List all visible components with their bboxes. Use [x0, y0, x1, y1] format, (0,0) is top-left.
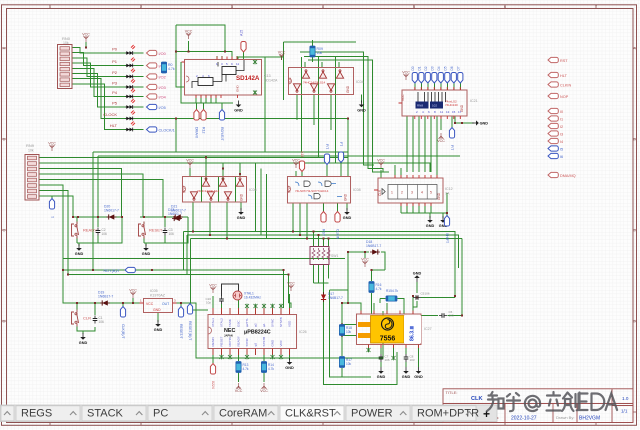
port RST(B) below NEC [210, 364, 215, 389]
power VCC left of flags [402, 71, 410, 80]
svg-text:GND: GND [344, 193, 348, 201]
flag F/T above IC07 [324, 144, 329, 165]
svg-text:F/T: F/T [450, 145, 454, 151]
svg-text:CLKIN: CLKIN [560, 83, 571, 87]
power VCC inverted below R13 [235, 383, 243, 393]
svg-text:103: 103 [449, 314, 454, 318]
svg-text:RESET: RESET [220, 336, 224, 346]
glyph E [579, 394, 588, 411]
wire counter bottom row [401, 193, 447, 218]
svg-text:1.0: 1.0 [622, 396, 629, 401]
svg-text:106: 106 [99, 320, 105, 324]
wire 7556 D18 row [348, 252, 385, 303]
svg-text:D6: D6 [450, 66, 454, 70]
svg-text:1/1: 1/1 [621, 409, 628, 414]
svg-text:1N6017-7: 1N6017-7 [104, 209, 119, 213]
svg-text:74HC14/74LS14: 74HC14/74LS14 [197, 189, 220, 193]
diode D17 vertical [321, 292, 343, 302]
switch CLR [72, 310, 105, 327]
svg-text:2: 2 [401, 191, 403, 195]
svg-text:106: 106 [169, 232, 175, 236]
resistor R18 [339, 325, 352, 336]
svg-text:RESIN: RESIN [211, 337, 215, 346]
title block [443, 389, 633, 423]
svg-text:RDY(B)/T: RDY(B)/T [104, 269, 121, 273]
svg-text:φ2: φ2 [254, 343, 258, 347]
svg-text:GND: GND [153, 308, 161, 312]
svg-text:8224: 8224 [211, 381, 215, 389]
switch RESET [139, 222, 175, 239]
hex inverter IC04 [288, 68, 364, 95]
svg-text:A: A [633, 46, 636, 51]
diode row P1 [112, 58, 166, 69]
svg-text:106: 106 [425, 292, 430, 296]
hex inverter IC06 [183, 177, 257, 203]
svg-text:1N6B17-7: 1N6B17-7 [98, 295, 113, 299]
gnd below IC06 [237, 208, 246, 220]
svg-text:POWER: POWER [351, 408, 393, 420]
port RESET/T right of IC05 [178, 307, 183, 340]
svg-text:RDY/E/T: RDY/E/T [220, 127, 224, 142]
diode row P4 [112, 89, 166, 100]
power VCC near RN0 [82, 33, 90, 42]
port DMA below SD142A [194, 110, 199, 139]
svg-text:IC26: IC26 [299, 330, 307, 334]
glyph li [547, 392, 561, 411]
diode D19 [98, 291, 113, 306]
wire CLOCK net run [134, 119, 349, 177]
svg-text:GND: GND [271, 339, 275, 347]
svg-text:I/O4: I/O4 [159, 95, 166, 99]
svg-text:P0: P0 [112, 47, 118, 52]
svg-text:4.7k: 4.7k [243, 367, 249, 371]
port CLKIN below IC07 [335, 212, 340, 240]
gnd up near 7556 [413, 271, 422, 282]
port above IC07 [299, 151, 304, 172]
glyph at [525, 396, 540, 411]
wire NEC resistor drops [190, 310, 264, 382]
wire triple bus mid [184, 232, 463, 304]
svg-text:1N6B17-7: 1N6B17-7 [366, 244, 381, 248]
wire IC06 bottom drops [193, 202, 241, 239]
svg-text:74HC240: 74HC240 [445, 103, 458, 107]
svg-text:7A: 7A [445, 192, 450, 196]
wire SD142A left loop [176, 25, 244, 103]
svg-text:HLT: HLT [560, 74, 568, 78]
svg-text:STSTB: STSTB [262, 337, 266, 347]
wire SD142A top pins [217, 56, 237, 60]
gnd below IC07 [343, 208, 352, 220]
svg-text:16.432MHz: 16.432MHz [244, 296, 261, 300]
svg-text:GND: GND [240, 193, 244, 201]
gnd below SD142A [234, 101, 243, 113]
svg-text:RST: RST [560, 59, 568, 63]
svg-text:Drawn By:: Drawn By: [556, 415, 574, 420]
svg-text:106: 106 [102, 232, 108, 236]
wire RESET box [144, 217, 188, 246]
diode row CLOCK [103, 111, 135, 121]
power VCC inverted below R14 [260, 383, 268, 393]
gnd below NEC [285, 358, 294, 370]
svg-text:15: 15 [452, 110, 456, 114]
svg-text:φ2: φ2 [254, 323, 258, 327]
svg-text:OSC: OSC [237, 320, 241, 327]
gnd below counter B [439, 216, 448, 228]
svg-text:D1: D1 [418, 66, 422, 70]
svg-text:VCC: VCC [146, 302, 154, 306]
svg-text:XTAL2: XTAL2 [220, 318, 224, 327]
port below counter [444, 216, 449, 244]
svg-text:I2: I2 [560, 125, 563, 129]
gnd below 7556 A [377, 367, 386, 379]
svg-text:GND: GND [346, 85, 350, 93]
flag RDY [104, 267, 136, 272]
wire IC05 out run [158, 303, 383, 358]
wire SD142A bottom drops [196, 95, 222, 110]
glyph hu [507, 393, 520, 411]
glyph chuang [562, 393, 580, 412]
svg-text:A: A [3, 46, 6, 51]
svg-text:I1: I1 [560, 117, 563, 121]
svg-text:13: 13 [446, 110, 450, 114]
svg-text:VCC: VCC [279, 339, 283, 346]
svg-text:STACK: STACK [87, 408, 124, 420]
wire VCC stub RN0 [85, 42, 87, 48]
svg-text:RN9: RN9 [26, 143, 35, 148]
gnd IC05 [154, 320, 163, 332]
svg-text:K1970AZ: K1970AZ [150, 294, 166, 298]
capacitor C7 [379, 354, 390, 362]
svg-text:CLK&RST: CLK&RST [285, 408, 336, 420]
switch READY [72, 222, 108, 239]
svg-text:10k: 10k [28, 149, 34, 153]
buffer IC07 [288, 177, 361, 204]
svg-text:CLOCK: CLOCK [103, 112, 117, 117]
svg-text:1N6B17-7: 1N6B17-7 [328, 296, 343, 300]
svg-text:D5: D5 [444, 66, 448, 70]
svg-text:IC06: IC06 [249, 188, 257, 192]
svg-text:JAPAN: JAPAN [224, 334, 233, 338]
power VCC IC06 [186, 159, 194, 168]
gnd below 7556 B [402, 367, 411, 379]
svg-text:11: 11 [236, 62, 239, 66]
port above SD142A [240, 30, 247, 52]
power VCC D18 [361, 258, 369, 267]
resistor array RN8 [399, 87, 478, 119]
power VCC above SD142A [185, 30, 193, 39]
svg-text:REGS: REGS [21, 408, 52, 420]
svg-text:C: C [3, 228, 6, 233]
svg-text:I4: I4 [560, 140, 563, 144]
capacitor C6 [439, 310, 454, 318]
wire 7556 left loop [314, 283, 398, 385]
svg-text:IC04: IC04 [356, 80, 364, 84]
wire RN0 fanout to P0..HLT rows [72, 48, 126, 130]
svg-text:RDYIN: RDYIN [228, 337, 232, 346]
timer IC27 7556 [357, 311, 432, 349]
flag FT2 above IC07 [338, 142, 343, 163]
wire IC07 top stubs [296, 161, 348, 177]
svg-text:10k: 10k [346, 330, 352, 334]
svg-text:I/O0: I/O0 [159, 52, 166, 56]
svg-text:RESET/T: RESET/T [179, 324, 183, 340]
counter IC12 [374, 175, 453, 206]
svg-text:1: 1 [391, 191, 393, 195]
svg-text:GND: GND [437, 192, 441, 200]
gnd CLR [79, 333, 88, 345]
resistor network SW1 [310, 247, 338, 265]
resistor R13 [236, 362, 249, 373]
svg-text:10k: 10k [346, 362, 352, 366]
regulator IC05 [140, 289, 177, 313]
svg-text:I/O3: I/O3 [159, 86, 166, 90]
capacitor C8 [404, 354, 415, 362]
wire RN8 flag stubs [415, 82, 461, 90]
svg-text:R12: R12 [202, 127, 206, 133]
svg-text:BH2VGM: BH2VGM [579, 415, 600, 421]
bottom sheet tab bar [0, 405, 497, 422]
svg-text:17: 17 [458, 110, 462, 114]
gnd READY [75, 244, 84, 256]
svg-text:A15: A15 [240, 30, 244, 36]
svg-text:4.7k: 4.7k [168, 67, 175, 71]
svg-text:I5: I5 [560, 147, 563, 151]
wire counter top stubs [381, 165, 437, 178]
diode D20 [104, 205, 119, 220]
wire NEC xtal link [213, 294, 290, 308]
svg-text:P1: P1 [112, 59, 118, 64]
svg-text:SD142A: SD142A [264, 79, 278, 83]
svg-text:IC21: IC21 [470, 99, 478, 103]
svg-text:4.7k: 4.7k [392, 289, 398, 293]
wire RN8 bottom drops to counter [407, 116, 437, 172]
svg-text:I0: I0 [560, 110, 563, 114]
capacitor C5 [413, 292, 430, 300]
svg-text:SW1: SW1 [331, 254, 338, 258]
port R12 below SD142A [201, 110, 206, 134]
wire RN8 gnd/vcc stubs [441, 116, 474, 130]
wire NEC top stubs [213, 308, 290, 315]
svg-text:GND: GND [236, 85, 240, 93]
svg-text:HLT: HLT [110, 123, 118, 128]
svg-text:IC05: IC05 [150, 289, 158, 293]
svg-text:102: 102 [432, 104, 437, 108]
svg-text:P3: P3 [112, 81, 118, 86]
power VCC IC05 [129, 289, 137, 298]
svg-text:READY: READY [237, 336, 241, 346]
nc x below 7556 [367, 348, 371, 353]
power VCC inverted below RN8 [437, 133, 445, 143]
svg-text:NOP: NOP [560, 95, 569, 99]
svg-text:74LS07/74LS07/74HC14: 74LS07/74LS07/74HC14 [295, 189, 329, 193]
wire IC04 box loop [282, 42, 357, 100]
svg-text:86.3.Ⅲ: 86.3.Ⅲ [409, 325, 416, 341]
wire C6 link [421, 239, 462, 316]
wire RDY long lines [63, 259, 345, 309]
power VCC NEC right [287, 282, 295, 291]
diode D22 left of IC06 [168, 208, 182, 221]
diode row HLT [110, 122, 175, 133]
svg-text:P5: P5 [112, 101, 118, 106]
svg-text:106: 106 [385, 358, 390, 362]
svg-text:I6: I6 [560, 155, 563, 159]
svg-text:I/O2: I/O2 [159, 75, 166, 79]
svg-text:SYNC: SYNC [271, 318, 275, 327]
wire left tall loop [93, 152, 460, 270]
svg-text:P4: P4 [112, 90, 118, 95]
svg-text:4: 4 [421, 191, 423, 195]
glyph D [592, 394, 605, 411]
wire CLR row [63, 270, 140, 334]
diode D18 [366, 240, 381, 255]
clock generator IC26 NEC uPB8224C [208, 304, 307, 360]
power VCC NEC left [209, 284, 217, 293]
svg-text:XTAL1: XTAL1 [211, 318, 215, 327]
power VCC near RN9 [48, 142, 56, 151]
svg-text:SHIFT: SHIFT [445, 233, 449, 244]
svg-text:3: 3 [411, 191, 413, 195]
svg-text:10k: 10k [63, 41, 69, 45]
svg-text:CLKIN: CLKIN [336, 229, 340, 240]
wire RN9 port stub [51, 196, 53, 201]
watermark zhihu lichuang EDA [487, 392, 617, 411]
svg-text:D: D [3, 319, 6, 324]
resistor R0 [161, 62, 174, 73]
svg-text:C13: C13 [264, 74, 271, 78]
svg-text:RN8: RN8 [417, 104, 423, 108]
port below RN8 [449, 128, 454, 152]
svg-text:φ1: φ1 [262, 323, 266, 327]
port RDY below SD142A [219, 110, 224, 142]
gnd below 7556 C [414, 367, 423, 379]
wire 7556 left resistors col [342, 303, 357, 377]
svg-text:SD142A: SD142A [236, 75, 260, 82]
power VCC counter [377, 159, 385, 168]
wire IC06 top stubs [190, 168, 240, 202]
svg-text:μPB8224C: μPB8224C [244, 330, 271, 336]
svg-text:DMA/X: DMA/X [195, 127, 199, 139]
svg-text:TITLE:: TITLE: [446, 390, 458, 395]
resistor R16 [369, 282, 382, 293]
resistor R09 [310, 46, 323, 57]
port CLK(B)/T [120, 307, 125, 340]
wire 7556 top stubs [348, 282, 417, 314]
svg-text:4.7k: 4.7k [376, 287, 382, 291]
net flags above RN8 [412, 73, 463, 84]
resistor R17 [339, 357, 352, 368]
svg-text:1N6017-7: 1N6017-7 [171, 209, 186, 213]
svg-text:CLR: CLR [83, 316, 91, 321]
svg-text:D3: D3 [431, 66, 435, 70]
glyph A [606, 394, 618, 411]
svg-text:VCC: VCC [401, 94, 405, 101]
svg-text:D4: D4 [437, 66, 441, 70]
wire 7556 R15 row [380, 299, 404, 315]
svg-text:B: B [3, 137, 6, 142]
wire IC04 pass-through verticals [297, 57, 339, 163]
svg-text:CLK: CLK [471, 396, 483, 402]
svg-text:TANK: TANK [228, 319, 232, 327]
wire P row port stubs [134, 53, 144, 130]
svg-text:CLK: CLK [378, 189, 382, 196]
svg-text:IC12: IC12 [445, 187, 453, 191]
svg-text:7556: 7556 [380, 336, 396, 343]
gnd below counter A [426, 216, 435, 228]
wire nested loops mid [256, 163, 267, 239]
diode row P0 [112, 45, 166, 56]
svg-text:11: 11 [440, 110, 443, 114]
svg-text:A15: A15 [300, 151, 304, 157]
right port column [548, 57, 576, 177]
logic IC SD142A [182, 57, 278, 99]
port RESET(B)/T left of NEC [187, 304, 192, 342]
diode row P2 [112, 69, 166, 80]
svg-text:CLOCK/1: CLOCK/1 [159, 128, 175, 132]
wire IC04 right triple run [300, 52, 389, 172]
wire IC07 bottom stubs [293, 203, 347, 239]
svg-text:C: C [633, 228, 636, 233]
port RST below IC07 [321, 212, 326, 237]
svg-text:RESET: RESET [149, 228, 163, 233]
diode row P3 [112, 79, 166, 90]
svg-text:P2: P2 [112, 70, 118, 75]
port T below RN9 [49, 199, 54, 220]
svg-text:D7: D7 [457, 66, 461, 70]
crystal XTAL1 [233, 291, 261, 300]
glyph zhi [487, 392, 504, 411]
svg-text:IC08: IC08 [353, 188, 361, 192]
svg-text:ROM+DPTR: ROM+DPTR [417, 408, 479, 420]
svg-text:2022-10-27: 2022-10-27 [511, 415, 537, 421]
gnd right of RN8 [472, 120, 488, 125]
connector RN9 [25, 143, 39, 200]
svg-text:74HC14/74LS14: 74HC14/74LS14 [303, 81, 326, 85]
wire RN9 bus lines [39, 158, 430, 275]
wire SD142A right link [238, 57, 284, 152]
svg-text:CoreRAM: CoreRAM [219, 408, 267, 420]
svg-text:RST: RST [322, 229, 326, 237]
power VCC IC07 [292, 159, 300, 168]
capacitor C20 [205, 296, 223, 305]
svg-text:IC27: IC27 [424, 327, 432, 331]
svg-text:D0: D0 [411, 66, 415, 70]
svg-text:VDD: VDD [288, 320, 292, 327]
svg-text:STSTB: STSTB [279, 317, 283, 327]
svg-text:B: B [633, 137, 636, 142]
svg-text:D2: D2 [424, 66, 428, 70]
resistor R14 [261, 362, 274, 373]
svg-text:10p: 10p [206, 301, 211, 305]
wire NEC bottom stubs [213, 349, 290, 364]
svg-text:103: 103 [410, 358, 415, 362]
wire bus branch IC06 [206, 158, 240, 177]
svg-text:4.7k: 4.7k [268, 367, 274, 371]
gnd below IC04 [357, 101, 366, 113]
power VCC IC04 [278, 51, 286, 60]
svg-text:RESET(B)/T: RESET(B)/T [188, 321, 192, 341]
svg-text:CLK(B)/T: CLK(B)/T [121, 324, 125, 339]
wire READY box [77, 217, 122, 246]
wire R09 stubs [312, 40, 314, 62]
svg-text:5: 5 [430, 191, 432, 195]
wire SW1 stubs [314, 232, 329, 284]
svg-text:SYNC: SYNC [245, 337, 249, 346]
svg-text:F/T: F/T [325, 144, 329, 150]
svg-text:I/O5: I/O5 [159, 106, 166, 110]
wire 7556 R16 col [372, 270, 386, 314]
svg-text:PC: PC [153, 408, 168, 420]
svg-text:10k: 10k [317, 51, 323, 55]
